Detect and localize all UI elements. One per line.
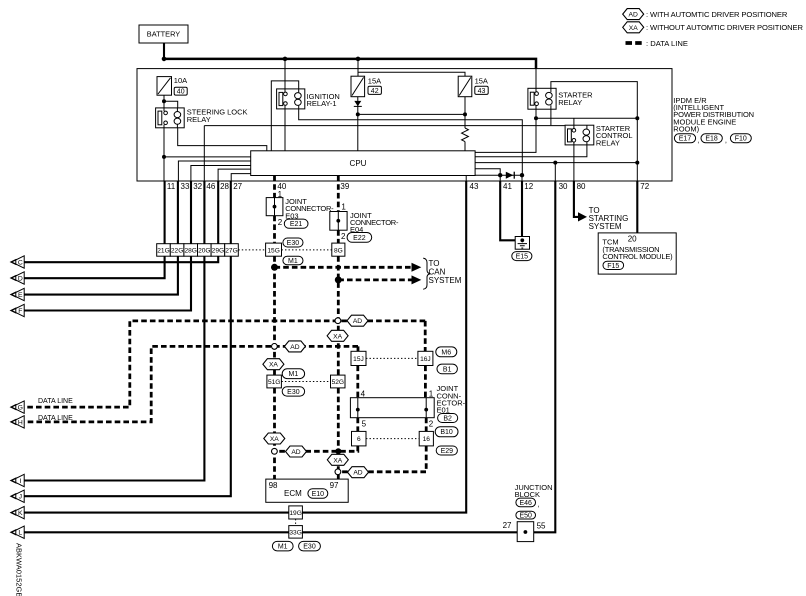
svg-text:SYSTEM: SYSTEM <box>589 222 622 231</box>
svg-text:,: , <box>725 135 727 144</box>
svg-text:XA: XA <box>269 362 278 369</box>
svg-text:M1: M1 <box>289 371 299 378</box>
svg-text:ECM: ECM <box>284 489 302 498</box>
svg-text:M1: M1 <box>288 258 298 265</box>
svg-text:E15: E15 <box>516 254 529 261</box>
svg-text:19G: 19G <box>289 510 301 517</box>
svg-text:B2: B2 <box>443 416 452 423</box>
svg-text:C: C <box>18 259 23 266</box>
svg-text:E17: E17 <box>679 136 692 143</box>
svg-text:SYSTEM: SYSTEM <box>429 276 462 285</box>
svg-text:46: 46 <box>206 182 215 191</box>
svg-text:8G: 8G <box>334 247 343 254</box>
svg-text:16: 16 <box>423 436 431 443</box>
svg-text:29G: 29G <box>212 248 224 255</box>
svg-text:1: 1 <box>429 390 434 399</box>
svg-text:DATA LINE: DATA LINE <box>38 398 73 405</box>
svg-text:DATA LINE: DATA LINE <box>38 415 73 422</box>
svg-text:RELAY: RELAY <box>596 138 620 147</box>
svg-text:43: 43 <box>478 88 486 95</box>
svg-text:RELAY-1: RELAY-1 <box>307 99 337 108</box>
svg-text:72: 72 <box>640 182 649 191</box>
svg-text:ROOM): ROOM) <box>673 124 699 133</box>
svg-text:XA: XA <box>270 436 279 443</box>
svg-text:4: 4 <box>361 390 366 399</box>
svg-text:E18: E18 <box>705 136 718 143</box>
svg-text:F15: F15 <box>607 263 619 270</box>
svg-text:E46: E46 <box>519 500 532 507</box>
svg-text:12: 12 <box>524 182 533 191</box>
svg-text:E04: E04 <box>350 225 363 234</box>
svg-text:D: D <box>18 275 23 282</box>
svg-text:,: , <box>697 135 699 144</box>
svg-text:27G: 27G <box>225 248 237 255</box>
svg-text:L: L <box>18 530 22 537</box>
svg-text:2: 2 <box>341 232 346 241</box>
svg-text:E10: E10 <box>312 491 325 498</box>
svg-text:XA: XA <box>629 25 638 32</box>
svg-text:ABKWA0152GB: ABKWA0152GB <box>15 543 24 596</box>
svg-text:B10: B10 <box>440 429 453 436</box>
svg-text:16J: 16J <box>420 356 431 363</box>
svg-text:33G: 33G <box>289 530 301 537</box>
svg-text:6: 6 <box>357 436 361 443</box>
svg-text:42: 42 <box>371 88 379 95</box>
svg-text:E30: E30 <box>287 240 300 247</box>
svg-text:E01: E01 <box>437 406 450 415</box>
svg-text:XA: XA <box>333 333 342 340</box>
svg-text:28G: 28G <box>184 248 196 255</box>
svg-text:32: 32 <box>193 182 202 191</box>
svg-text:22G: 22G <box>171 248 183 255</box>
svg-text:RELAY: RELAY <box>187 115 211 124</box>
svg-text:E03: E03 <box>285 211 298 220</box>
svg-text:1: 1 <box>341 202 346 211</box>
svg-text:BATTERY: BATTERY <box>147 30 180 39</box>
svg-text:2: 2 <box>278 218 283 227</box>
svg-text:XA: XA <box>333 457 342 464</box>
svg-text:40: 40 <box>177 89 185 96</box>
svg-text:AD: AD <box>629 12 638 19</box>
svg-text:20: 20 <box>628 235 637 244</box>
svg-text:RELAY: RELAY <box>558 98 582 107</box>
svg-text:E50: E50 <box>519 513 532 520</box>
svg-text:K: K <box>18 510 23 517</box>
svg-text:AD: AD <box>290 344 299 351</box>
svg-text:97: 97 <box>330 481 339 490</box>
svg-text:H: H <box>18 419 23 426</box>
svg-text:E: E <box>18 292 23 299</box>
svg-text:F10: F10 <box>735 136 747 143</box>
svg-text:15J: 15J <box>353 356 364 363</box>
svg-text:55: 55 <box>537 522 546 531</box>
svg-text:20G: 20G <box>198 248 210 255</box>
svg-text:J: J <box>19 494 22 501</box>
svg-text:B1: B1 <box>443 366 452 373</box>
svg-text:2: 2 <box>429 420 434 429</box>
svg-text:30: 30 <box>559 182 568 191</box>
svg-text:CONTROL MODULE): CONTROL MODULE) <box>602 252 673 261</box>
svg-text:98: 98 <box>269 481 278 490</box>
svg-text:28: 28 <box>220 182 229 191</box>
svg-text:15A: 15A <box>475 77 488 86</box>
svg-text:51G: 51G <box>268 379 280 386</box>
svg-text:: WITH AUTOMTIC DRIVER POSITIO: : WITH AUTOMTIC DRIVER POSITIONER <box>646 10 788 19</box>
svg-text:27: 27 <box>233 182 242 191</box>
svg-text:AD: AD <box>353 470 362 477</box>
svg-text:5: 5 <box>362 419 367 428</box>
svg-text:AD: AD <box>291 449 300 456</box>
svg-text:E29: E29 <box>441 448 454 455</box>
svg-text:10A: 10A <box>174 76 187 85</box>
svg-text:80: 80 <box>577 182 586 191</box>
svg-text:: WITHOUT AUTOMTIC DRIVER POSI: : WITHOUT AUTOMTIC DRIVER POSITIONER <box>646 23 803 32</box>
svg-text:33: 33 <box>181 182 190 191</box>
svg-text:E30: E30 <box>303 544 316 551</box>
svg-text:F: F <box>18 308 22 315</box>
svg-text:CPU: CPU <box>350 159 367 168</box>
svg-text:E22: E22 <box>353 235 366 242</box>
svg-text:AD: AD <box>353 318 362 325</box>
svg-text:M1: M1 <box>278 544 288 551</box>
svg-text:E21: E21 <box>290 221 303 228</box>
svg-text:G: G <box>18 405 23 412</box>
svg-text:15A: 15A <box>368 77 381 86</box>
svg-text:BLOCK: BLOCK <box>515 490 540 499</box>
svg-text:E30: E30 <box>287 389 300 396</box>
svg-text:: DATA LINE: : DATA LINE <box>646 39 688 48</box>
svg-text:52G: 52G <box>332 379 344 386</box>
svg-text:21G: 21G <box>157 248 169 255</box>
svg-text:15G: 15G <box>267 247 279 254</box>
svg-text:,: , <box>538 500 540 509</box>
svg-text:11: 11 <box>167 182 176 191</box>
svg-text:I: I <box>19 478 21 485</box>
svg-text:41: 41 <box>503 182 512 191</box>
svg-text:1: 1 <box>278 190 283 199</box>
svg-text:43: 43 <box>470 182 479 191</box>
svg-text:M6: M6 <box>441 349 451 356</box>
svg-text:39: 39 <box>340 182 349 191</box>
svg-text:27: 27 <box>503 521 512 530</box>
